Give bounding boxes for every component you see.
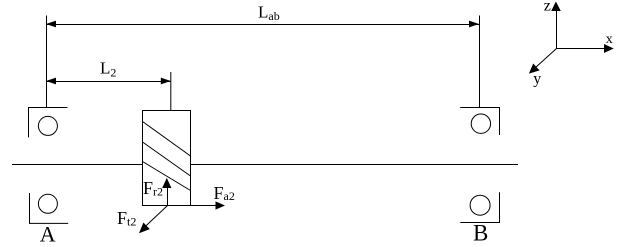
- bearing B lower ball: [470, 195, 490, 215]
- arrowhead L2 left: [46, 78, 56, 85]
- force Fr2 arrowhead: [162, 178, 171, 188]
- bearing B upper ball: [471, 114, 490, 133]
- bearing A lower ball: [38, 194, 57, 213]
- svg-text:x: x: [606, 32, 613, 47]
- bearing A lower bracket: [30, 193, 69, 223]
- force Ft2 arrow shaft: [146, 206, 168, 227]
- gear hatch line 2: [143, 142, 191, 176]
- bearing A upper bracket: [29, 108, 68, 138]
- force Ft2 arrowhead: [139, 223, 150, 234]
- bearing B upper bracket: [460, 108, 499, 136]
- coordinate axis y line: [536, 49, 557, 68]
- force Fa2 arrow shaft: [168, 205, 218, 207]
- gear 2 body: [143, 111, 191, 206]
- svg-text:y: y: [533, 71, 541, 88]
- extension line right (bearing B): [479, 16, 481, 108]
- gear hatch line 1: [143, 122, 191, 157]
- gear hatch line 3: [143, 162, 191, 191]
- arrowhead Lab left: [46, 21, 56, 28]
- dimension line Lab: [46, 24, 479, 26]
- dimension line L2: [46, 81, 171, 83]
- bearing B lower bracket: [460, 192, 499, 222]
- arrowhead L2 right: [161, 78, 171, 85]
- arrowhead Lab right: [469, 21, 479, 28]
- extension line left (bearing A): [46, 16, 48, 108]
- svg-text:B: B: [473, 221, 488, 246]
- shaft centerline right segment: [191, 164, 519, 166]
- shaft centerline left segment: [12, 164, 143, 166]
- coordinate axis z line: [556, 10, 558, 49]
- svg-text:z: z: [544, 0, 551, 15]
- coordinate axis x arrowhead: [604, 44, 614, 53]
- bearing A upper ball: [38, 116, 57, 135]
- svg-text:A: A: [40, 222, 56, 247]
- coordinate axis x line: [557, 48, 606, 50]
- force Fr2 arrow shaft: [167, 186, 169, 206]
- extension line gear center: [170, 72, 172, 111]
- coordinate axis y arrowhead: [529, 64, 540, 74]
- coordinate axis z arrowhead: [551, 2, 561, 12]
- force Fa2 arrowhead: [216, 201, 226, 209]
